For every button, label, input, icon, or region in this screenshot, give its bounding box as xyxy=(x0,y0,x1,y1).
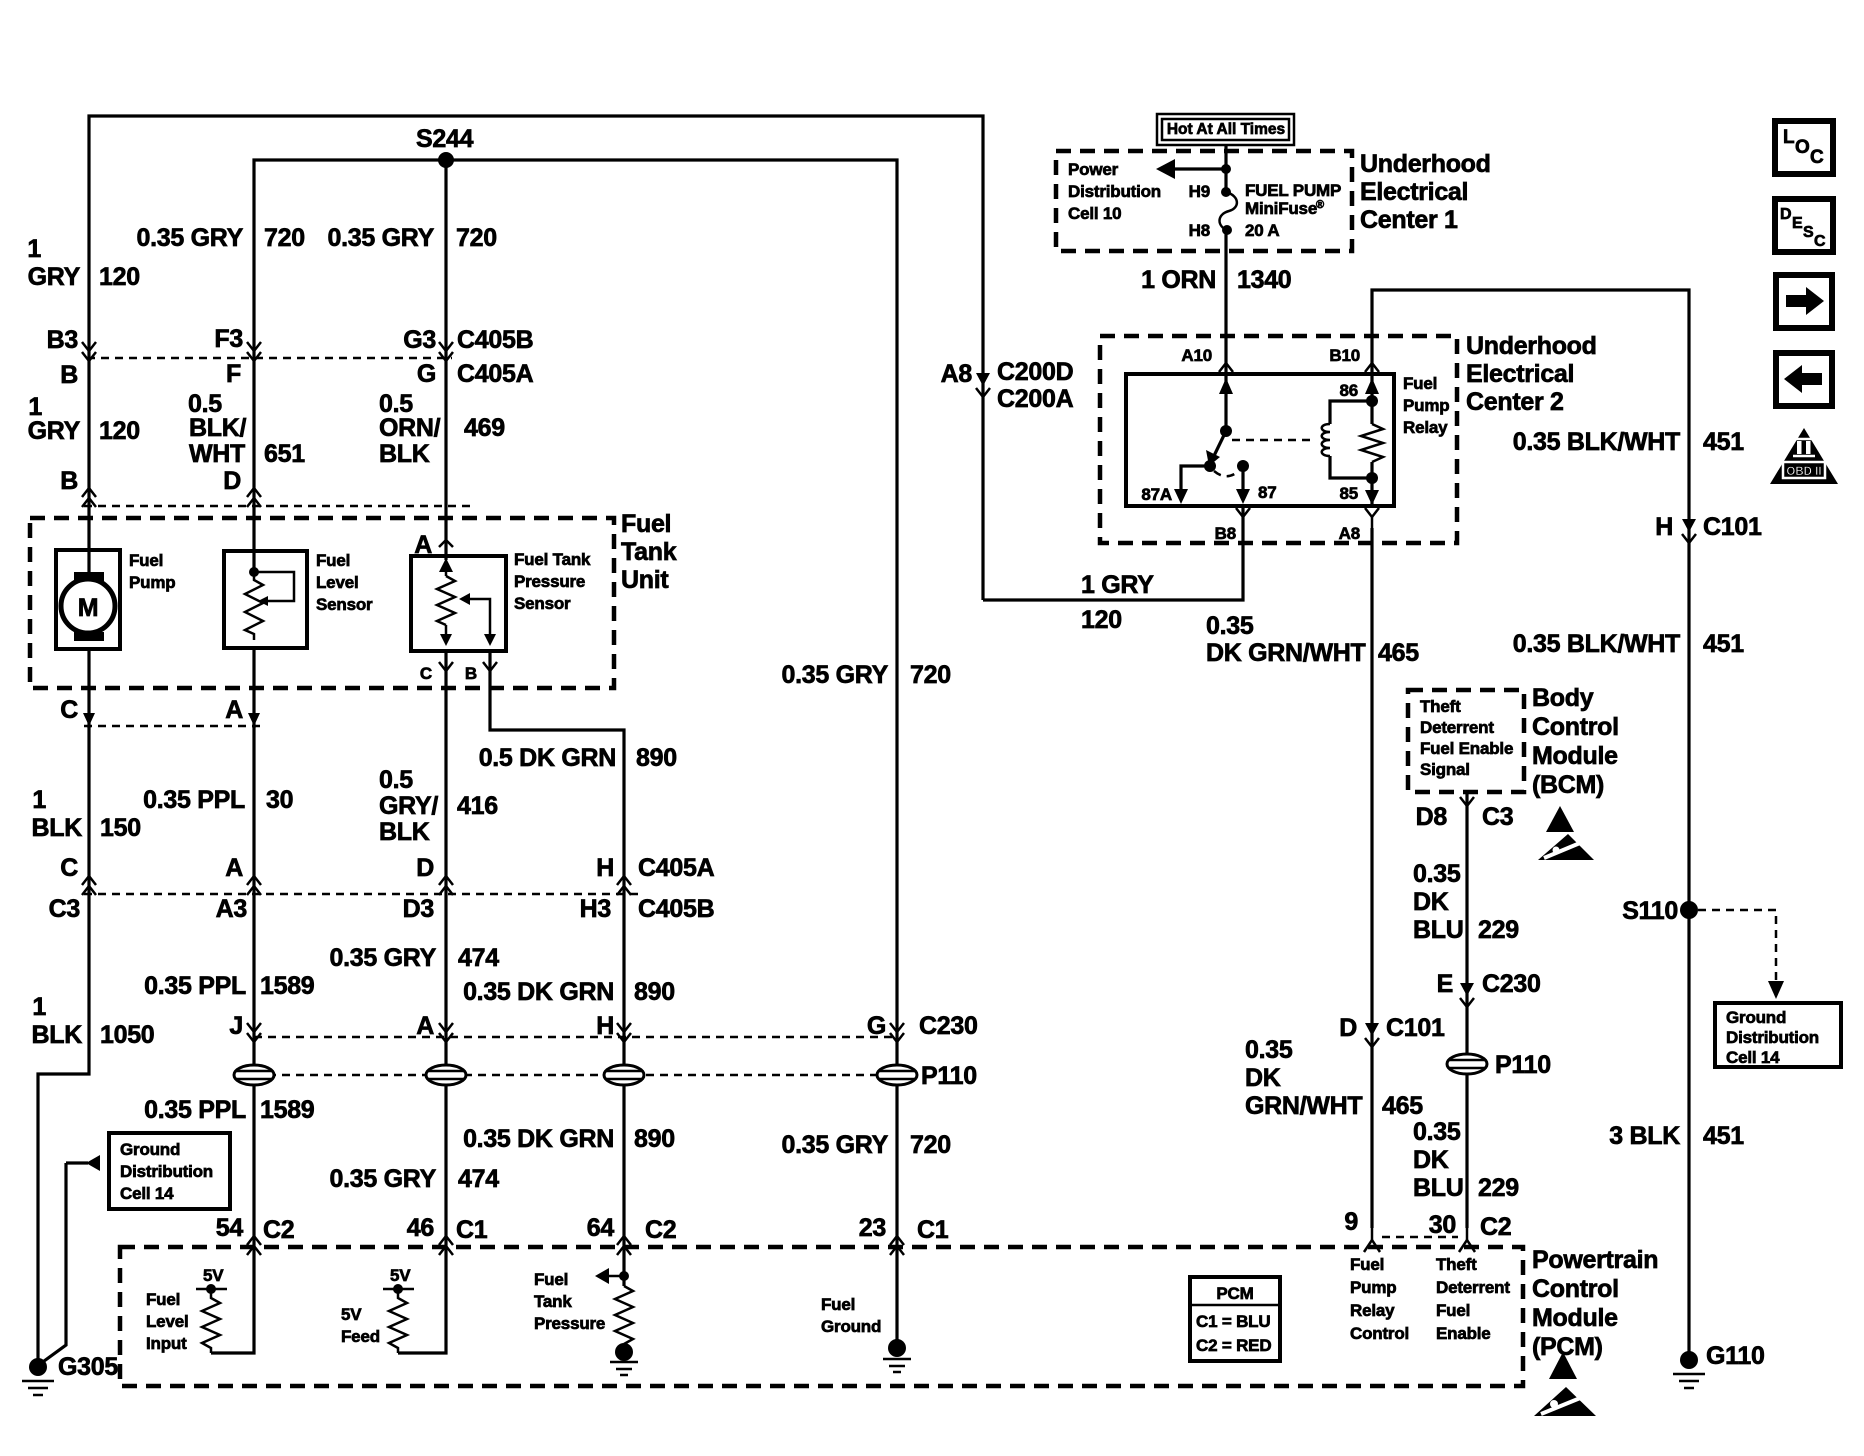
svg-text:MiniFuse: MiniFuse xyxy=(1245,199,1317,218)
svg-text:Theft: Theft xyxy=(1436,1255,1477,1274)
svg-text:L: L xyxy=(1783,127,1795,148)
svg-text:C2: C2 xyxy=(645,1216,676,1244)
svg-text:G110: G110 xyxy=(1706,1342,1765,1370)
svg-text:G: G xyxy=(867,1012,886,1040)
svg-text:A8: A8 xyxy=(941,360,973,388)
fuel tank pressure resistor xyxy=(615,1286,633,1344)
PCM pin jog dashed 9-30 xyxy=(1382,1236,1458,1239)
svg-text:DK: DK xyxy=(1413,888,1449,916)
svg-text:890: 890 xyxy=(634,1125,675,1153)
svg-text:P110: P110 xyxy=(1495,1051,1551,1079)
svg-text:451: 451 xyxy=(1703,428,1744,456)
icon arrow right box xyxy=(1776,275,1832,328)
svg-text:C405B: C405B xyxy=(638,895,714,923)
fuel tank pressure ref arrow xyxy=(619,1271,629,1281)
svg-text:S110: S110 xyxy=(1622,897,1678,925)
svg-text:0.5: 0.5 xyxy=(379,766,413,794)
svg-text:20 A: 20 A xyxy=(1245,221,1279,240)
pressure sensor resistor xyxy=(437,576,455,625)
wire col3 P110 to PCM xyxy=(444,1084,447,1250)
svg-text:Signal: Signal xyxy=(1420,760,1470,779)
svg-text:651: 651 xyxy=(264,440,305,468)
svg-text:B: B xyxy=(60,361,78,389)
svg-text:5V: 5V xyxy=(341,1305,362,1324)
power distribution branch arrow xyxy=(1221,164,1231,174)
svg-text:0.35: 0.35 xyxy=(1413,860,1461,888)
svg-text:890: 890 xyxy=(636,744,677,772)
grommet col5 xyxy=(877,1065,917,1085)
icon OBD II triangle xyxy=(1770,428,1838,484)
svg-text:1 GRY: 1 GRY xyxy=(1081,571,1154,599)
pressure sensor signal arrow down C xyxy=(445,625,448,640)
pressure sensor pin C arrow xyxy=(439,662,453,671)
svg-text:54: 54 xyxy=(216,1214,244,1242)
svg-text:0.35 PPL: 0.35 PPL xyxy=(144,1096,246,1124)
svg-text:B10: B10 xyxy=(1329,346,1360,365)
svg-text:OBD II: OBD II xyxy=(1786,466,1821,478)
pin G3/G arrows xyxy=(439,342,453,351)
svg-text:S: S xyxy=(1803,224,1814,241)
svg-text:1589: 1589 xyxy=(260,1096,314,1124)
relay 30 feed arrow xyxy=(1224,374,1227,431)
svg-text:465: 465 xyxy=(1378,639,1419,667)
row3 pin A arrow xyxy=(439,1023,453,1032)
node S244 xyxy=(438,152,454,168)
pressure sensor A pin arrow xyxy=(439,540,453,547)
row2 pin A/A3 arrows xyxy=(247,876,261,885)
fuel tank pressure input wire xyxy=(622,1250,625,1286)
UEC1 dashed box xyxy=(1056,151,1352,251)
svg-text:C2: C2 xyxy=(1480,1213,1511,1241)
svg-text:120: 120 xyxy=(99,417,140,445)
svg-text:D8: D8 xyxy=(1416,803,1448,831)
svg-text:Control: Control xyxy=(1532,1275,1619,1303)
svg-text:0.35: 0.35 xyxy=(1413,1118,1461,1146)
svg-text:WHT: WHT xyxy=(189,440,245,468)
svg-text:D3: D3 xyxy=(403,895,434,923)
svg-text:O: O xyxy=(1795,137,1810,158)
grommet col4 xyxy=(604,1065,644,1085)
fuel tank unit dashed box xyxy=(30,518,614,688)
svg-text:Unit: Unit xyxy=(621,566,669,594)
svg-text:30: 30 xyxy=(1429,1211,1456,1239)
svg-text:BLK/: BLK/ xyxy=(189,414,246,442)
wire S244 horizontal bus xyxy=(254,160,897,1066)
svg-text:PCM: PCM xyxy=(1216,1284,1253,1303)
grommet col3 xyxy=(426,1065,466,1085)
svg-text:Fuel: Fuel xyxy=(534,1270,568,1289)
wire col1 C to C405 xyxy=(87,726,90,894)
svg-text:Feed: Feed xyxy=(341,1327,380,1346)
svg-text:E: E xyxy=(1437,970,1453,998)
svg-text:(BCM): (BCM) xyxy=(1532,771,1604,799)
wire C200 drop xyxy=(981,372,984,600)
svg-text:451: 451 xyxy=(1703,1122,1744,1150)
wire col1 B to tank xyxy=(87,358,90,573)
svg-text:GRY: GRY xyxy=(28,417,81,445)
wire col4 P110 to PCM xyxy=(622,1084,625,1250)
wire col4 H3 down xyxy=(622,894,625,1066)
fuel pump commutator bars xyxy=(74,572,104,581)
pressure sensor pin B arrow xyxy=(483,662,497,671)
ESD symbol PCM xyxy=(1549,1352,1577,1379)
svg-text:0.35 GRY: 0.35 GRY xyxy=(330,944,437,972)
svg-text:C200A: C200A xyxy=(997,385,1074,413)
svg-text:Module: Module xyxy=(1532,1304,1618,1332)
relay 86 wire arrow xyxy=(1370,374,1373,401)
svg-text:5V: 5V xyxy=(203,1266,224,1285)
svg-text:M: M xyxy=(78,594,99,622)
wire level sensor to A pin xyxy=(252,648,255,728)
svg-text:Ground: Ground xyxy=(821,1317,881,1336)
pin C arrow down xyxy=(83,713,95,726)
svg-text:C2: C2 xyxy=(263,1216,294,1244)
wire col2 P110 to PCM xyxy=(252,1084,255,1250)
pin B arrows up xyxy=(82,488,96,497)
svg-text:Fuel: Fuel xyxy=(129,551,163,570)
svg-text:Level: Level xyxy=(316,573,358,592)
svg-text:BLK: BLK xyxy=(32,1021,83,1049)
wire ground ref branch to G305 xyxy=(40,1163,66,1364)
svg-text:Distribution: Distribution xyxy=(120,1162,213,1181)
svg-text:C1 = BLU: C1 = BLU xyxy=(1196,1312,1270,1331)
svg-text:0.35 BLK/WHT: 0.35 BLK/WHT xyxy=(1513,428,1680,456)
svg-text:23: 23 xyxy=(859,1214,886,1242)
svg-text:Relay: Relay xyxy=(1350,1301,1395,1320)
svg-text:Theft: Theft xyxy=(1420,697,1461,716)
svg-text:85: 85 xyxy=(1339,484,1358,503)
svg-text:1050: 1050 xyxy=(100,1021,154,1049)
svg-text:Fuel Enable: Fuel Enable xyxy=(1420,739,1513,758)
wire col2 F to tank xyxy=(252,358,255,574)
relay coil xyxy=(1366,395,1378,407)
relay 85 wire xyxy=(1370,478,1373,506)
svg-text:Underhood: Underhood xyxy=(1466,332,1597,360)
svg-text:229: 229 xyxy=(1478,916,1519,944)
svg-text:Fuel: Fuel xyxy=(146,1290,180,1309)
svg-text:0.35: 0.35 xyxy=(1245,1036,1293,1064)
pin B3/B arrows xyxy=(82,342,96,351)
svg-text:BLU: BLU xyxy=(1413,916,1463,944)
pin D8 C3 xyxy=(1460,797,1474,806)
ground distribution cell 14 right box xyxy=(1715,1003,1841,1067)
svg-text:BLK: BLK xyxy=(379,818,430,846)
connector C405 row2 dashed line xyxy=(84,893,640,896)
wire pressure C down col3 xyxy=(444,651,447,894)
icon arrow left box xyxy=(1776,353,1832,406)
UEC2 dashed box xyxy=(1100,336,1457,543)
svg-text:G: G xyxy=(417,360,436,388)
svg-text:BLK: BLK xyxy=(379,440,430,468)
icon DESC box xyxy=(1775,199,1833,252)
svg-text:J: J xyxy=(229,1012,243,1040)
svg-text:30: 30 xyxy=(266,786,293,814)
svg-text:469: 469 xyxy=(464,414,505,442)
svg-text:Cell 14: Cell 14 xyxy=(120,1184,174,1203)
svg-text:B3: B3 xyxy=(47,326,78,354)
svg-text:Cell 10: Cell 10 xyxy=(1068,204,1121,223)
svg-text:720: 720 xyxy=(264,224,305,252)
svg-text:0.35 GRY: 0.35 GRY xyxy=(782,1131,889,1159)
svg-text:890: 890 xyxy=(634,978,675,1006)
svg-text:Center 2: Center 2 xyxy=(1466,388,1564,416)
svg-text:A3: A3 xyxy=(216,895,247,923)
svg-text:Input: Input xyxy=(146,1334,187,1353)
svg-text:0.5 DK GRN: 0.5 DK GRN xyxy=(479,744,616,772)
svg-text:A: A xyxy=(416,1012,434,1040)
svg-text:Fuel Tank: Fuel Tank xyxy=(514,550,591,569)
svg-text:C: C xyxy=(1814,233,1826,250)
wire top feed horizontal S244 to left drop xyxy=(89,116,983,372)
relay 87 wire xyxy=(1241,466,1244,495)
svg-text:C1: C1 xyxy=(917,1216,949,1244)
row3 pin J arrow xyxy=(247,1023,261,1032)
row2 pin H/H3 arrows xyxy=(617,876,631,885)
svg-text:C405B: C405B xyxy=(457,326,533,354)
svg-text:3 BLK: 3 BLK xyxy=(1609,1122,1680,1150)
fuel ground symbol xyxy=(888,1339,906,1357)
svg-text:D: D xyxy=(416,854,434,882)
svg-text:Relay: Relay xyxy=(1403,418,1448,437)
svg-text:Ground: Ground xyxy=(120,1140,180,1159)
wire A8 down 465 xyxy=(1370,528,1373,1228)
row3 pin G arrow xyxy=(890,1023,904,1032)
row2 pin D/D3 arrows xyxy=(439,876,453,885)
pin A arrow down xyxy=(248,713,260,726)
svg-text:H: H xyxy=(596,854,614,882)
svg-text:Control: Control xyxy=(1350,1324,1409,1343)
svg-text:B8: B8 xyxy=(1215,524,1236,543)
svg-text:Control: Control xyxy=(1532,713,1619,741)
ground ref arrow left xyxy=(66,1161,88,1164)
ground G110 xyxy=(1680,1351,1698,1369)
svg-text:F3: F3 xyxy=(214,325,243,353)
svg-text:0.35 BLK/WHT: 0.35 BLK/WHT xyxy=(1513,630,1680,658)
svg-text:C: C xyxy=(60,854,78,882)
connector C405 dashed line xyxy=(87,357,452,360)
hot at all times box xyxy=(1157,114,1294,145)
svg-text:Distribution: Distribution xyxy=(1068,182,1161,201)
svg-text:720: 720 xyxy=(456,224,497,252)
fuel pump motor circle M xyxy=(61,579,115,633)
svg-text:A8: A8 xyxy=(1339,524,1360,543)
relay 87 contact dashed arc xyxy=(1214,470,1240,476)
svg-text:G305: G305 xyxy=(58,1353,118,1381)
svg-text:C405A: C405A xyxy=(638,854,715,882)
icon LOC box xyxy=(1775,121,1833,174)
svg-text:FUEL PUMP: FUEL PUMP xyxy=(1245,181,1341,200)
relay switch blade xyxy=(1211,431,1226,462)
svg-text:A10: A10 xyxy=(1181,346,1212,365)
wire col3 D3 down xyxy=(444,894,447,1066)
svg-text:46: 46 xyxy=(407,1214,434,1242)
svg-text:Pump: Pump xyxy=(129,573,175,592)
wire S244 drop to G3 xyxy=(444,160,447,358)
wire col5 P110 to PCM xyxy=(895,1084,898,1250)
svg-text:0.35: 0.35 xyxy=(1206,612,1254,640)
relay switch pivot xyxy=(1220,425,1232,437)
svg-text:0.35 GRY: 0.35 GRY xyxy=(782,661,889,689)
svg-text:1: 1 xyxy=(32,993,46,1021)
svg-text:Fuel: Fuel xyxy=(1436,1301,1470,1320)
svg-text:416: 416 xyxy=(457,792,498,820)
5V feed resistor xyxy=(389,1289,407,1353)
svg-text:C: C xyxy=(1810,147,1824,168)
fuel ground wire xyxy=(895,1250,898,1344)
fuel pump relay box xyxy=(1126,374,1394,506)
svg-text:H: H xyxy=(1655,513,1673,541)
svg-text:Pressure: Pressure xyxy=(534,1314,605,1333)
wire hot feed into fuse xyxy=(1224,145,1227,192)
wire B8 to C200 drop xyxy=(983,506,1243,600)
svg-text:C3: C3 xyxy=(1482,803,1513,831)
svg-text:1340: 1340 xyxy=(1237,266,1291,294)
row3 pin H arrow xyxy=(617,1023,631,1032)
svg-text:Fuel: Fuel xyxy=(1350,1255,1384,1274)
svg-text:C101: C101 xyxy=(1386,1014,1445,1042)
svg-text:Level: Level xyxy=(146,1312,188,1331)
relay coil resistor xyxy=(1370,401,1373,424)
svg-text:229: 229 xyxy=(1478,1174,1519,1202)
svg-text:H9: H9 xyxy=(1189,182,1210,201)
wire col3 G to sensor A xyxy=(444,358,447,560)
svg-text:C2 = RED: C2 = RED xyxy=(1196,1336,1271,1355)
fuel level input resistor xyxy=(202,1289,220,1353)
relay coil link dashed xyxy=(1232,439,1316,442)
svg-text:Ground: Ground xyxy=(1726,1008,1786,1027)
wire pressure B to DK GRN col4 xyxy=(490,651,624,894)
fuel tank pressure sensor box xyxy=(411,556,506,651)
svg-text:C: C xyxy=(420,664,432,683)
svg-text:Fuel: Fuel xyxy=(316,551,350,570)
svg-text:GRN/WHT: GRN/WHT xyxy=(1245,1092,1362,1120)
wire pump to C pin xyxy=(87,649,90,728)
svg-text:C230: C230 xyxy=(1482,970,1541,998)
wire B10 riser to right bus xyxy=(1372,290,1689,1352)
svg-text:86: 86 xyxy=(1339,381,1358,400)
svg-text:1: 1 xyxy=(32,786,46,814)
svg-text:G3: G3 xyxy=(403,326,436,354)
svg-text:150: 150 xyxy=(100,814,141,842)
svg-text:Distribution: Distribution xyxy=(1726,1028,1819,1047)
svg-text:720: 720 xyxy=(910,1131,951,1159)
in-tank connector dashed line xyxy=(84,505,470,508)
svg-text:120: 120 xyxy=(99,263,140,291)
svg-text:H: H xyxy=(596,1012,614,1040)
svg-text:0.35 GRY: 0.35 GRY xyxy=(137,224,244,252)
connector C230 row3 dashed line xyxy=(254,1036,897,1039)
svg-text:474: 474 xyxy=(458,944,499,972)
svg-text:Fuel: Fuel xyxy=(1403,374,1437,393)
grommet P110 bcm xyxy=(1447,1054,1487,1074)
wire BCM enable down xyxy=(1465,792,1468,1228)
level sensor wiper xyxy=(254,572,294,601)
wire col2 A to C405 xyxy=(252,726,255,894)
svg-text:Hot At All Times: Hot At All Times xyxy=(1167,121,1285,138)
svg-text:E: E xyxy=(1792,215,1803,232)
S110 dashed branch xyxy=(1698,910,1776,980)
fuel level sensor box xyxy=(224,551,307,648)
PCM dashed box xyxy=(120,1247,1523,1386)
relay 87A contact xyxy=(1204,460,1216,472)
svg-text:1: 1 xyxy=(27,235,41,263)
svg-text:C: C xyxy=(60,696,78,724)
svg-text:H3: H3 xyxy=(580,895,611,923)
svg-text:A: A xyxy=(225,696,243,724)
svg-text:C230: C230 xyxy=(919,1012,978,1040)
svg-text:Body: Body xyxy=(1532,684,1594,712)
fuel tank pressure ground xyxy=(615,1343,633,1361)
svg-text:Pump: Pump xyxy=(1350,1278,1396,1297)
svg-text:P110: P110 xyxy=(921,1062,977,1090)
svg-text:Power: Power xyxy=(1068,160,1119,179)
svg-text:720: 720 xyxy=(910,661,951,689)
svg-text:Module: Module xyxy=(1532,742,1618,770)
node S110 xyxy=(1680,901,1698,919)
ground G305 xyxy=(29,1358,47,1376)
wire level input to pin 54 xyxy=(211,1250,254,1353)
svg-text:DK: DK xyxy=(1413,1146,1449,1174)
grommet P110 dashed row xyxy=(254,1074,897,1077)
svg-text:C405A: C405A xyxy=(457,360,534,388)
svg-text:B: B xyxy=(465,664,477,683)
svg-text:D: D xyxy=(1780,206,1792,223)
svg-text:GRY: GRY xyxy=(28,263,81,291)
svg-text:Underhood: Underhood xyxy=(1360,150,1491,178)
svg-text:Electrical: Electrical xyxy=(1466,360,1574,388)
svg-text:BLU: BLU xyxy=(1413,1174,1463,1202)
svg-text:C1: C1 xyxy=(456,1216,488,1244)
ESD symbol BCM xyxy=(1546,806,1574,832)
svg-text:Electrical: Electrical xyxy=(1360,178,1468,206)
svg-text:0.35 DK GRN: 0.35 DK GRN xyxy=(463,978,614,1006)
svg-text:D: D xyxy=(223,467,241,495)
wire 5V feed to pin 46 xyxy=(398,1250,446,1353)
svg-text:DK: DK xyxy=(1245,1064,1281,1092)
svg-text:451: 451 xyxy=(1703,630,1744,658)
svg-text:®: ® xyxy=(1316,199,1324,211)
svg-text:F: F xyxy=(226,360,241,388)
svg-text:DK GRN/WHT: DK GRN/WHT xyxy=(1206,639,1366,667)
svg-text:Powertrain: Powertrain xyxy=(1532,1246,1658,1274)
svg-text:C200D: C200D xyxy=(997,358,1073,386)
svg-text:0.35 DK GRN: 0.35 DK GRN xyxy=(463,1125,614,1153)
svg-text:9: 9 xyxy=(1344,1208,1358,1236)
fuse FUEL PUMP MiniFuse 20A xyxy=(1221,187,1231,197)
svg-text:Center 1: Center 1 xyxy=(1360,206,1458,234)
svg-text:BLK: BLK xyxy=(32,814,83,842)
svg-text:120: 120 xyxy=(1081,606,1122,634)
svg-text:474: 474 xyxy=(458,1165,499,1193)
svg-text:C101: C101 xyxy=(1703,513,1762,541)
svg-text:(PCM): (PCM) xyxy=(1532,1333,1603,1361)
row2 pin C/C3 arrows xyxy=(82,876,96,885)
svg-text:87: 87 xyxy=(1258,483,1277,502)
svg-text:0.35 GRY: 0.35 GRY xyxy=(328,224,435,252)
tank exit connector dashed line xyxy=(84,725,266,728)
svg-text:5V: 5V xyxy=(390,1266,411,1285)
svg-text:Fuel: Fuel xyxy=(821,1295,855,1314)
grommet col2 xyxy=(234,1065,274,1085)
svg-text:465: 465 xyxy=(1382,1092,1423,1120)
svg-text:Tank: Tank xyxy=(534,1292,572,1311)
svg-text:Enable: Enable xyxy=(1436,1324,1491,1343)
pressure sensor feed arrow up xyxy=(439,558,453,572)
svg-text:A: A xyxy=(225,854,243,882)
svg-text:C3: C3 xyxy=(49,895,80,923)
svg-text:Sensor: Sensor xyxy=(514,594,571,613)
svg-text:H8: H8 xyxy=(1189,221,1210,240)
